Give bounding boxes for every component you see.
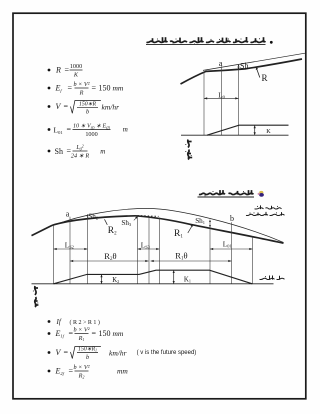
svg-text:R: R <box>262 73 268 83</box>
svg-text:R1: R1 <box>174 229 183 240</box>
rotated Arabic label (middle diagram) <box>33 286 39 307</box>
svg-text:1000: 1000 <box>70 63 82 70</box>
svg-text:a: a <box>66 210 70 219</box>
formula L01 = 10*V(f)*E(f)/1000 m <box>48 124 128 138</box>
svg-text:m: m <box>123 125 128 133</box>
svg-text:=: = <box>64 348 69 357</box>
svg-text:=: = <box>65 66 70 75</box>
svg-text:R1: R1 <box>78 335 85 342</box>
svg-text:If: If <box>56 318 62 326</box>
svg-text:L0: L0 <box>218 92 225 100</box>
svg-text:km/hr: km/hr <box>109 348 127 357</box>
svg-text:K: K <box>73 71 79 78</box>
svg-text:150∗R: 150∗R <box>79 102 97 108</box>
svg-text:R2θ: R2θ <box>104 251 116 262</box>
svg-text:mm: mm <box>117 367 128 376</box>
svg-text:R: R <box>79 89 84 96</box>
Sh dimension arrow <box>238 64 240 69</box>
svg-text:R1θ: R1θ <box>175 251 187 262</box>
dimension R2*theta <box>70 260 149 262</box>
svg-text:R2: R2 <box>78 372 85 379</box>
middle diagram superelevation profile <box>54 270 253 284</box>
svg-text:Sh3: Sh3 <box>121 219 132 227</box>
formula Ef = b*V^2/R = 150 mm <box>48 81 124 96</box>
dimension L01 <box>210 248 253 250</box>
svg-text:b × V²: b × V² <box>74 81 90 88</box>
svg-text:Sh1: Sh1 <box>195 217 205 225</box>
Sh2 shift arrow <box>87 214 89 218</box>
svg-text:b × V²: b × V² <box>74 327 90 334</box>
formula R = 1000/K <box>48 63 83 78</box>
svg-text:K1: K1 <box>184 277 191 284</box>
top diagram superelevation ramp <box>207 125 289 135</box>
svg-text:=: = <box>92 329 97 338</box>
svg-text:LS2: LS2 <box>65 242 74 250</box>
thin original curve arc <box>54 208 284 242</box>
top diagram thin tangent line <box>203 53 305 70</box>
formula Sh = L0^2/(24*R) m <box>48 143 106 159</box>
svg-text:m: m <box>100 148 105 156</box>
svg-text:=: = <box>67 125 72 134</box>
dimension LS2 <box>54 248 88 250</box>
svg-text:=: = <box>64 102 69 111</box>
svg-text:V: V <box>56 348 62 357</box>
caption: line of curvature (Arabic) <box>260 276 285 280</box>
svg-text:b: b <box>86 354 89 361</box>
svg-text:V: V <box>56 102 62 111</box>
dimension K1 <box>173 270 175 284</box>
dotted tangent marks at junction (Sh3) <box>138 215 159 218</box>
svg-text:Sh: Sh <box>55 147 63 156</box>
svg-text:150: 150 <box>99 329 111 338</box>
svg-text:1000: 1000 <box>85 131 97 138</box>
svg-text:mm: mm <box>113 84 124 93</box>
svg-text:b: b <box>86 109 89 116</box>
svg-text:L02: L02 <box>75 143 83 151</box>
formula E1f = b*V^2/R1 = 150 mm <box>48 327 124 342</box>
dimension R1*theta <box>151 260 232 262</box>
witness verticals <box>53 225 55 283</box>
witness vertical line v2 at point a <box>220 66 222 135</box>
formula V = sqrt(150R1/b) km/hr (v is the future speed) <box>48 347 197 361</box>
dimension K2 <box>101 274 103 283</box>
top diagram baseline <box>181 134 289 136</box>
label R with leader arrow <box>257 68 260 77</box>
svg-text:( v is the future speed): ( v is the future speed) <box>137 350 197 356</box>
main title: bold Arabic heading with bullet, underlined <box>146 37 273 45</box>
svg-text:km/hr: km/hr <box>102 102 120 111</box>
svg-text:Sh2: Sh2 <box>88 213 98 221</box>
svg-text:L01: L01 <box>223 241 232 249</box>
formula If (R2 > R1) <box>48 318 100 326</box>
svg-text:b × V²: b × V² <box>74 364 90 371</box>
svg-text:L01: L01 <box>54 126 63 136</box>
svg-text:150: 150 <box>99 84 111 93</box>
svg-text:150∗R1: 150∗R1 <box>78 347 97 353</box>
svg-text:K2: K2 <box>112 277 119 284</box>
top diagram thick road curve <box>181 59 303 84</box>
svg-text:b: b <box>230 214 234 223</box>
formula E2f = b*V^2/R2 mm <box>48 364 129 379</box>
svg-text:K: K <box>266 128 271 135</box>
label R2 with leader <box>105 219 108 225</box>
formula V = sqrt(150R/b) km/hr <box>48 101 119 116</box>
middle diagram baseline <box>32 283 274 285</box>
thick compound road curve (R2 left, R1 right) <box>32 216 136 236</box>
dimension L0 <box>204 97 239 99</box>
svg-text:Sh: Sh <box>240 61 248 70</box>
label R1 with leader <box>188 225 193 233</box>
svg-text:=: = <box>68 84 73 93</box>
dimension LS3 <box>138 248 160 250</box>
svg-text:=: = <box>92 84 97 93</box>
svg-text:Ef: Ef <box>55 84 63 94</box>
svg-text:mm: mm <box>113 329 124 338</box>
svg-text:E1f: E1f <box>55 329 65 339</box>
witness vertical line v1 <box>203 72 205 135</box>
witness vertical line v3 at Sh arrow <box>238 64 240 135</box>
svg-text:R2: R2 <box>108 226 117 237</box>
caption: horizontal projection (Arabic, 2 lines) <box>246 205 285 215</box>
svg-text:24 ∗ R: 24 ∗ R <box>71 152 89 159</box>
svg-text:E2f: E2f <box>55 367 65 377</box>
dimension K <box>254 125 256 135</box>
svg-text:a: a <box>219 58 223 68</box>
svg-text:( R 2 > R 1 ): ( R 2 > R 1 ) <box>70 319 100 326</box>
Sh1 shift arrow <box>209 220 211 227</box>
rotated Arabic label (top diagram) <box>185 140 192 160</box>
svg-text:R: R <box>55 66 61 75</box>
svg-text:10 ∗ V(f) ∗ E(f): 10 ∗ V(f) ∗ E(f) <box>73 124 111 130</box>
section title: compound curve (Arabic, underlined) with colored star <box>198 190 264 197</box>
